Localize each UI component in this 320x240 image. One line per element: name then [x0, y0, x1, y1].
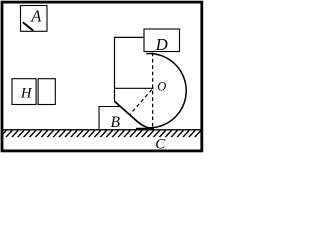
block: top edge of square — [115, 36, 145, 38]
incline edge to B — [115, 101, 151, 128]
border frame — [2, 2, 202, 151]
svg-text:C: C — [155, 136, 166, 152]
block: bottom edge of square (radius line to O) — [114, 87, 154, 89]
ground — [3, 129, 201, 131]
svg-text:A: A — [30, 6, 42, 25]
label box D — [144, 29, 180, 52]
dashed radius O-B — [129, 90, 152, 116]
label box A — [21, 6, 48, 32]
label box H — [12, 79, 36, 105]
empty box right of H — [38, 79, 55, 105]
svg-text:B: B — [111, 114, 121, 131]
svg-text:O: O — [157, 80, 166, 94]
label box B — [99, 107, 121, 130]
svg-text:H: H — [20, 85, 33, 101]
block: left edge — [114, 37, 116, 102]
svg-text:D: D — [155, 35, 168, 54]
thick ground contact under disc — [136, 128, 154, 130]
ground hatching — [0, 130, 207, 137]
disc outline arc — [146, 54, 186, 128]
leader line from A — [23, 22, 33, 30]
dashed vertical line D-O-C — [152, 53, 154, 129]
